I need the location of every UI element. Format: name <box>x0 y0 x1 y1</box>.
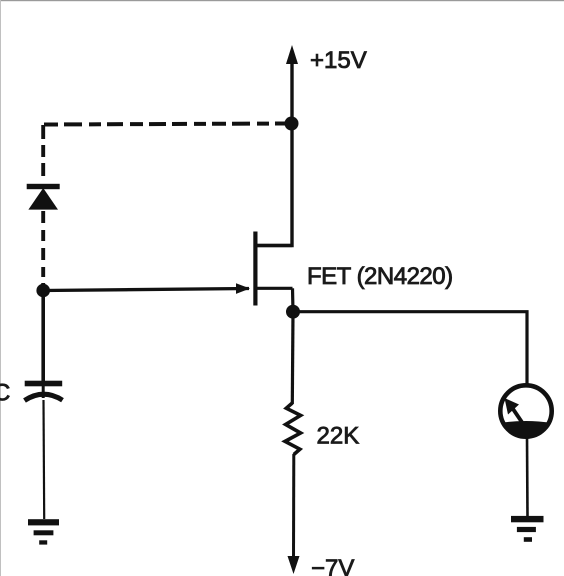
svg-text:FET (2N4220): FET (2N4220) <box>307 263 453 290</box>
svg-text:+15V: +15V <box>310 47 367 74</box>
capacitor C <box>25 381 63 401</box>
wire resistor to -7V <box>292 454 295 560</box>
wire dashed vertical upper <box>41 125 45 183</box>
meter M1 <box>494 385 558 442</box>
wire gate with arrow <box>43 283 250 294</box>
wire source <box>291 288 295 312</box>
svg-text:−7V: −7V <box>311 555 354 576</box>
wire meter to ground <box>526 436 529 517</box>
diode D1 <box>27 184 60 210</box>
wire gate node to capacitor <box>41 291 45 382</box>
ground (meter) <box>511 516 544 542</box>
svg-text:C: C <box>0 380 10 407</box>
resistor R1 22K <box>285 403 301 455</box>
wire dashed vertical lower <box>41 211 45 285</box>
power +15V <box>286 45 367 74</box>
wire capacitor to ground <box>42 400 45 519</box>
ground (capacitor) <box>28 519 59 544</box>
wire dashed feedback horizontal <box>44 124 288 125</box>
wire drain supply <box>255 60 292 246</box>
power -7V <box>288 555 355 576</box>
wire output to meter <box>293 312 527 385</box>
node gate <box>36 284 50 298</box>
wire source node to resistor <box>291 312 295 404</box>
node source output junction <box>286 305 300 319</box>
svg-text:22K: 22K <box>317 423 360 450</box>
transistor Q1 FET (2N4220) <box>253 232 292 306</box>
node supply junction <box>285 117 299 131</box>
